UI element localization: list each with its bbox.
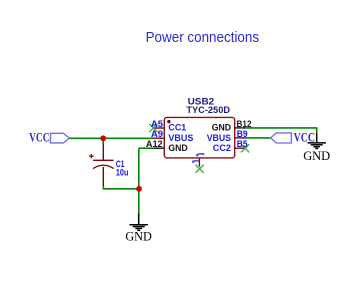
svg-text:Power connections: Power connections (146, 29, 260, 46)
svg-text:B9: B9 (237, 129, 248, 139)
svg-text:B5: B5 (237, 139, 248, 149)
svg-text:TYC-250D: TYC-250D (186, 105, 230, 115)
svg-text:VBUS: VBUS (168, 133, 193, 143)
svg-text:VBUS: VBUS (207, 133, 231, 143)
svg-text:GND: GND (125, 229, 152, 244)
svg-text:A9: A9 (151, 129, 163, 139)
svg-text:GND: GND (168, 143, 188, 153)
svg-text:CC2: CC2 (213, 143, 231, 153)
svg-text:A12: A12 (146, 139, 163, 149)
svg-text:VCC: VCC (294, 130, 316, 145)
svg-text:GND: GND (212, 123, 232, 133)
svg-text:B12: B12 (237, 119, 252, 129)
svg-text:CC1: CC1 (168, 123, 186, 133)
svg-text:GND: GND (303, 148, 330, 163)
svg-text:10u: 10u (116, 168, 128, 178)
svg-text:VCC: VCC (29, 130, 50, 145)
svg-text:A5: A5 (151, 119, 163, 129)
